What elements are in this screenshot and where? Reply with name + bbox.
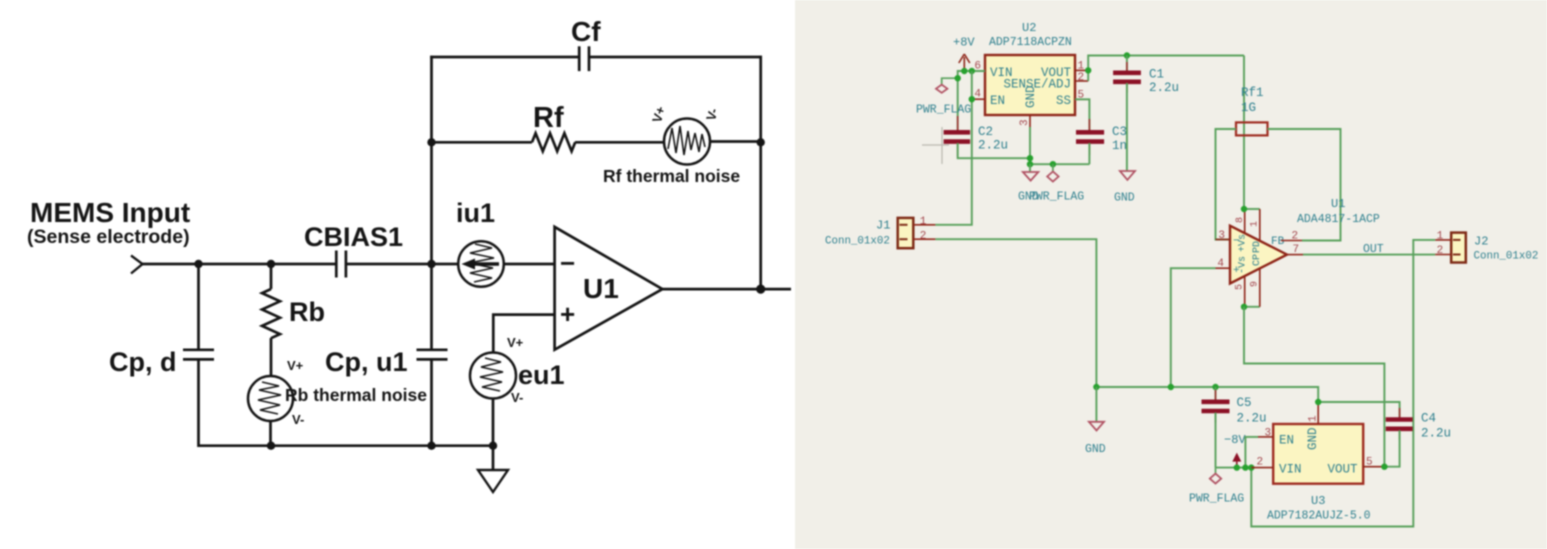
pin 1 J2: [1435, 230, 1451, 242]
capacitor C5: [1202, 387, 1267, 426]
wire CBIAS1 to iu1: [346, 263, 459, 266]
pin 2 U1 FB: [1281, 231, 1302, 243]
wire gnd to C4 top: [1318, 402, 1399, 418]
svg-text:Rf thermal noise: Rf thermal noise: [603, 166, 740, 186]
capacitor Cp,d: [109, 347, 214, 377]
op-amp U1: [555, 227, 663, 350]
node junction Rf right: [757, 138, 765, 146]
svg-text:+8V: +8V: [953, 36, 975, 50]
pin 2 J1: [913, 230, 935, 242]
node junction input-Rb: [267, 260, 275, 268]
svg-text:3: 3: [1218, 230, 1225, 242]
wire bottom rail: [199, 444, 494, 447]
kicad sheet background: [795, 0, 1547, 549]
pin 5 U2: [1075, 89, 1089, 101]
pin 1 U1: [1244, 209, 1261, 241]
svg-text:U1: U1: [583, 273, 619, 304]
connector J1: [825, 218, 913, 248]
wire Rf to noise source: [575, 141, 665, 144]
wire iu1 to opamp: [504, 263, 556, 266]
power flag PWR_FLAG (input): [916, 78, 971, 116]
node junction input-feedback: [427, 260, 435, 268]
power -8V: [1224, 433, 1246, 468]
svg-text:1: 1: [1308, 415, 1320, 422]
svg-text:PWR_FLAG: PWR_FLAG: [1189, 493, 1244, 506]
node junction input-Cpd: [194, 260, 202, 268]
svg-text:2.2u: 2.2u: [978, 139, 1008, 153]
capacitor CBIAS1: [304, 222, 403, 278]
svg-text:C3: C3: [1112, 125, 1127, 139]
resistor Rf: [532, 102, 575, 151]
node junction C1 tap: [1124, 52, 1130, 58]
svg-text:2: 2: [1292, 231, 1299, 243]
svg-text:−: −: [560, 248, 575, 278]
wire feedback right vertical: [759, 56, 762, 289]
node MEMS input label: [27, 197, 190, 248]
wire Rb to noise source: [270, 338, 273, 377]
svg-text:Conn_01x02: Conn_01x02: [825, 236, 890, 248]
svg-text:2: 2: [1257, 457, 1264, 469]
svg-text:4: 4: [1217, 258, 1224, 270]
svg-text:2.2u: 2.2u: [1149, 81, 1179, 95]
node junction -8V tap: [1234, 464, 1240, 470]
svg-text:J2: J2: [1474, 235, 1488, 249]
cursor crosshair: [922, 127, 949, 164]
power flag PWR_FLAG (gnd): [1029, 164, 1084, 203]
wire Rf row left: [432, 141, 533, 144]
svg-text:1: 1: [1437, 230, 1444, 242]
wire eu1 to bottom: [492, 399, 495, 448]
svg-text:V-: V-: [511, 390, 523, 405]
svg-text:Conn_01x02: Conn_01x02: [1474, 251, 1539, 263]
svg-text:8: 8: [1235, 217, 1246, 223]
pin 2 J2: [1435, 245, 1451, 257]
capacitor C2: [944, 116, 1008, 157]
svg-text:SS: SS: [1056, 94, 1071, 108]
svg-text:CBIAS1: CBIAS1: [304, 222, 403, 252]
capacitor Cf: [571, 16, 601, 71]
node junction VOUT pins: [1085, 67, 1091, 73]
wire Rb branch upper: [270, 264, 273, 289]
node junction gnd-J1: [1093, 384, 1099, 390]
wire U2 gnd pin down: [1029, 127, 1031, 164]
wire Rf1 right to FB: [1268, 129, 1341, 241]
power +8V: [953, 36, 975, 72]
svg-text:C1: C1: [1149, 68, 1164, 82]
wire Cpd branch upper: [197, 264, 200, 350]
wire Cpd branch lower: [197, 360, 200, 447]
svg-text:+: +: [560, 299, 575, 329]
svg-text:EN: EN: [990, 94, 1005, 108]
node junction J1 riser top: [969, 68, 975, 74]
pin 6 U2: [973, 61, 985, 73]
wire C2 bottom rail: [958, 143, 1030, 158]
svg-text:OUT: OUT: [1363, 243, 1384, 256]
wire feedback left vertical: [430, 56, 433, 350]
wire -Vs to U3 VOUT: [1244, 307, 1384, 467]
wire opamp output: [662, 288, 791, 291]
node junction gnd-C2: [1027, 155, 1033, 161]
svg-text:2.2u: 2.2u: [1237, 412, 1267, 426]
node junction +8V stem: [961, 68, 967, 74]
svg-text:ADP7118ACPZN: ADP7118ACPZN: [989, 36, 1072, 49]
noise source iu1: [456, 198, 504, 287]
node junction EN tap: [969, 96, 975, 102]
wire Cpu1 lower: [430, 360, 433, 447]
svg-text:U1: U1: [1331, 197, 1345, 211]
wire J1 pin2 to gnd net: [935, 239, 1096, 387]
svg-text:−: −: [1233, 236, 1240, 248]
wire top Cf right: [589, 56, 762, 59]
svg-text:FB: FB: [1271, 236, 1285, 248]
svg-text:5: 5: [1366, 457, 1373, 469]
wire gnd net rail: [1096, 387, 1318, 402]
svg-text:V+: V+: [507, 335, 524, 350]
svg-text:1n: 1n: [1112, 139, 1127, 153]
pin 1 U2: [1075, 60, 1088, 72]
svg-text:Rf1: Rf1: [1241, 86, 1264, 100]
wire C5 to VIN row: [1215, 413, 1217, 468]
connector J2: [1451, 233, 1538, 263]
pin 7 U1 output: [1287, 244, 1303, 256]
noise source Rb thermal noise: [248, 358, 427, 427]
noise source eu1: [470, 335, 565, 405]
node junction bottom Rb: [267, 442, 275, 450]
node junction VOUT-C4: [1381, 464, 1387, 470]
pin 1 J1: [913, 216, 935, 228]
svg-text:EN: EN: [1279, 434, 1294, 448]
svg-text:1: 1: [1250, 221, 1261, 227]
node junction gnd rail: [1027, 161, 1033, 167]
pin 4 U2: [972, 89, 985, 101]
svg-text:C5: C5: [1237, 396, 1252, 410]
svg-text:V-: V-: [703, 106, 721, 122]
svg-text:MEMS Input: MEMS Input: [30, 197, 190, 228]
wire gnd cross rail: [1030, 163, 1089, 165]
svg-text:C4: C4: [1421, 412, 1436, 426]
svg-text:U3: U3: [1311, 494, 1325, 508]
svg-text:Rf: Rf: [533, 102, 564, 134]
svg-text:5: 5: [1235, 284, 1246, 290]
svg-text:GND: GND: [1024, 85, 1038, 108]
svg-text:2: 2: [1437, 245, 1444, 257]
node junction supply top: [1241, 206, 1247, 212]
svg-text:U2: U2: [1022, 21, 1036, 35]
pin 3 U2: [1019, 115, 1031, 127]
node junction Rf left: [427, 138, 435, 146]
svg-text:ADA4817-1ACP: ADA4817-1ACP: [1297, 213, 1380, 226]
pin 8 U1: [1235, 209, 1246, 233]
ground GND (main): [1085, 387, 1106, 456]
wire Rf1 left to pin3: [1216, 129, 1237, 240]
capacitor C3: [1075, 99, 1127, 164]
svg-text:9: 9: [1250, 281, 1261, 287]
node junction pwrflag tap: [955, 75, 961, 81]
svg-text:V+: V+: [649, 104, 668, 124]
wire C4 bottom to VOUT: [1384, 430, 1399, 466]
svg-text:Cf: Cf: [571, 16, 601, 47]
pin 3 U1: [1216, 230, 1231, 242]
ground GND (C1): [1114, 171, 1135, 205]
svg-text:+: +: [1233, 265, 1240, 277]
svg-text:(Sense electrode): (Sense electrode): [27, 226, 190, 248]
node junction gnd-+IN: [1168, 384, 1174, 390]
capacitor C4: [1386, 408, 1451, 441]
node junction pwrflag2 tap: [1050, 161, 1056, 167]
pin 3 U3: [1258, 428, 1273, 440]
wire Rb noise to bottom: [269, 421, 272, 447]
wire J1 pin1 to +8V: [935, 71, 971, 225]
wire main input to CBIAS1: [142, 263, 336, 266]
wire top Cf left: [430, 56, 579, 59]
wire noise to right vertical: [710, 140, 762, 143]
svg-text:2: 2: [1078, 72, 1085, 84]
svg-text:Rb: Rb: [289, 297, 325, 327]
svg-text:2: 2: [920, 230, 927, 242]
svg-text:−8V: −8V: [1224, 433, 1246, 447]
svg-text:GND: GND: [1306, 427, 1320, 450]
svg-text:2.2u: 2.2u: [1421, 427, 1451, 441]
input arrow: [131, 256, 143, 274]
svg-text:CP: CP: [1252, 254, 1263, 266]
svg-text:V-: V-: [292, 412, 304, 427]
svg-text:Cp, u1: Cp, u1: [325, 347, 408, 377]
ground GND (U2): [1018, 164, 1039, 203]
svg-text:PWR_FLAG: PWR_FLAG: [1029, 191, 1084, 204]
svg-text:J1: J1: [876, 219, 890, 233]
wire opamp plus input: [493, 315, 554, 353]
wire J2 pin1 to -8V loop: [1251, 240, 1435, 527]
node junction bottom eu1: [489, 442, 497, 450]
svg-text:iu1: iu1: [456, 198, 495, 228]
svg-text:3: 3: [1265, 428, 1272, 440]
node junction gnd-C5: [1212, 384, 1218, 390]
wire +IN net: [1171, 268, 1216, 387]
svg-text:C2: C2: [978, 125, 993, 139]
pin 5 U1: [1235, 276, 1246, 307]
node junction EN-VIN: [1242, 464, 1248, 470]
wire top rail to opamp supply: [1243, 56, 1245, 210]
svg-text:V+: V+: [287, 358, 304, 373]
wire output to J2: [1303, 243, 1435, 256]
op-amp U1 ADA4817-1ACP: [1230, 197, 1380, 284]
svg-text:GND: GND: [1114, 192, 1135, 205]
wire EN U3 net: [1245, 437, 1258, 468]
svg-text:1G: 1G: [1241, 101, 1256, 115]
svg-text:3: 3: [1019, 119, 1031, 126]
wire VIN node: [958, 71, 985, 132]
pin 1 U3: [1308, 402, 1320, 424]
pin 4 U1: [1216, 258, 1231, 270]
pin 2 U2: [1075, 72, 1088, 84]
svg-text:PD: PD: [1252, 241, 1263, 253]
node junction VIN loop: [1248, 464, 1254, 470]
node junction output-feedback: [756, 285, 765, 294]
pin 9 U1: [1244, 268, 1261, 306]
capacitor Cp,u1: [325, 347, 448, 377]
svg-text:7: 7: [1293, 244, 1300, 256]
svg-text:1: 1: [920, 216, 927, 228]
svg-text:PWR_FLAG: PWR_FLAG: [916, 104, 971, 117]
svg-text:1: 1: [1078, 60, 1085, 72]
resistor Rb: [262, 289, 325, 338]
ground: [478, 446, 508, 492]
capacitor C1: [1113, 56, 1179, 96]
resistor Rf1 1G: [1236, 86, 1268, 135]
node junction supply bottom: [1241, 304, 1247, 310]
svg-text:Cp, d: Cp, d: [109, 347, 177, 377]
wire C1 to gnd: [1126, 83, 1128, 171]
regulator U2 ADP7118ACPZN: [985, 21, 1075, 115]
svg-text:eu1: eu1: [518, 360, 565, 390]
wire VOUT node: [1088, 56, 1244, 82]
wire VIN row: [1216, 467, 1252, 469]
power flag PWR_FLAG (-8V): [1189, 468, 1244, 506]
svg-text:4: 4: [974, 89, 981, 101]
svg-text:ADP7182AUJZ-5.0: ADP7182AUJZ-5.0: [1267, 510, 1371, 523]
svg-text:GND: GND: [1085, 443, 1106, 456]
noise source Rf thermal noise: [603, 104, 740, 186]
svg-text:VOUT: VOUT: [1327, 463, 1358, 477]
node junction U3 gnd: [1315, 399, 1321, 405]
node junction bottom Cpu1: [427, 442, 435, 450]
svg-text:VIN: VIN: [1279, 463, 1302, 477]
regulator U3 ADP7182AUJZ-5.0: [1267, 424, 1371, 523]
pin 5 U3: [1363, 457, 1384, 469]
svg-text:Rb thermal noise: Rb thermal noise: [285, 385, 427, 405]
pin 2 U3: [1251, 457, 1273, 469]
